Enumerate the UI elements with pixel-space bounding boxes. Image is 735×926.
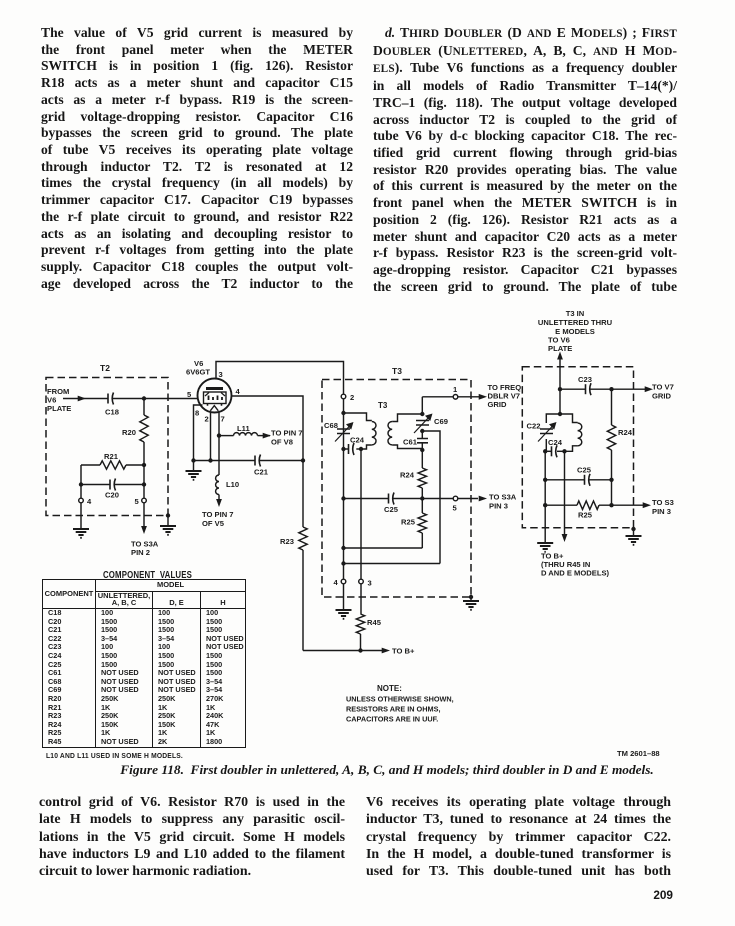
svg-text:C69: C69: [434, 417, 448, 426]
capacitor C25 (early models): [577, 466, 592, 486]
node: junction C24/coil bottom: [359, 447, 363, 451]
node: junction coil bottom / B+ line: [562, 449, 566, 453]
node: junction bus/pin2: [208, 458, 212, 462]
bottom right column: [366, 794, 671, 881]
resistor R24 (H model): [400, 450, 427, 499]
T3 shield label: [392, 366, 402, 376]
node: FROM V5 PLATE input label: [47, 387, 71, 413]
wire: B+ feed line: [303, 650, 382, 652]
svg-text:T3: T3: [378, 401, 388, 410]
resistor R45: [356, 584, 381, 651]
top right column: [373, 25, 677, 296]
svg-text:R20: R20: [122, 428, 136, 437]
transformer T3 (H model) shield box: [322, 380, 471, 598]
node: TO B+ label: [392, 647, 415, 656]
wire: left line down to ground: [544, 451, 546, 543]
wire: pin 7 down to L10: [218, 413, 220, 476]
node: junction C25/R24/R25: [420, 496, 424, 500]
wire: bus stub to ground: [193, 461, 195, 472]
pin 4 label: [236, 387, 241, 396]
svg-text:L10: L10: [226, 480, 239, 489]
capacitor C24 (early models): [545, 438, 564, 457]
ground on T2 shield: [160, 526, 176, 535]
resistor R24 (early models): [607, 389, 632, 505]
node: terminal 2 of T3: [341, 393, 354, 402]
caption: [14, 763, 735, 778]
node: TO PIN 7 OF V5 label: [202, 510, 234, 528]
note body: [346, 695, 454, 724]
node: junction R20/R21: [142, 463, 146, 467]
capacitor C21: [254, 455, 303, 477]
node: TO S3A PIN 3 label: [489, 493, 517, 511]
op-amp? no: electron tube V6 6V6GT envelope: [198, 379, 232, 413]
node: shield ground junction (early): [631, 527, 635, 536]
node: junction R45/B+: [358, 648, 362, 652]
tube V6 grid/cathode structure: [204, 392, 227, 406]
svg-text:OF V8: OF V8: [271, 438, 293, 447]
svg-text:UNLESS OTHERWISE SHOWN,: UNLESS OTHERWISE SHOWN,: [346, 695, 454, 704]
pin 5 label: [187, 390, 192, 399]
page number: [634, 888, 673, 902]
pin 8 label: [195, 409, 199, 418]
svg-text:C24: C24: [350, 436, 365, 445]
svg-text:CAPACITORS ARE IN UUF.: CAPACITORS ARE IN UUF.: [346, 715, 438, 724]
wire: C25 row (early models): [545, 479, 611, 481]
node: TO B+ (THRU R45) label: [541, 552, 610, 578]
svg-text:PIN 3: PIN 3: [652, 507, 671, 516]
svg-text:5: 5: [453, 504, 458, 513]
tube V6 base key: [210, 406, 218, 411]
capacitor C25 (H model): [384, 493, 399, 515]
svg-text:R45: R45: [367, 618, 382, 627]
node: junction R25 left (early): [543, 503, 547, 507]
node: terminal 5 of T3: [453, 496, 458, 512]
wire: C18 to tube pin 5: [113, 398, 198, 400]
wire: arrow to B+: [382, 648, 390, 654]
transformer T3 secondary winding: [388, 414, 422, 449]
node: junction R24/R25 (early): [609, 503, 613, 507]
svg-text:UNLETTERED THRU: UNLETTERED THRU: [538, 318, 613, 327]
ground under terminal 4: [73, 529, 89, 538]
node: junction plate/C23: [558, 387, 562, 391]
svg-text:8: 8: [195, 409, 199, 418]
transformer T2 shield box: [46, 378, 168, 516]
wire: pin 3 riser and top run to T3: [216, 362, 344, 395]
svg-text:4: 4: [236, 387, 241, 396]
wire: plate feed with up arrow: [557, 352, 563, 390]
TM number: [617, 749, 660, 758]
wire: secondary top to output corner: [422, 397, 479, 414]
svg-text:TO S3: TO S3: [652, 498, 674, 507]
svg-text:C25: C25: [577, 466, 592, 475]
component values table: [42, 579, 246, 760]
inductor L10: [216, 475, 240, 495]
node: T2 shield ground junction: [166, 513, 170, 526]
wire: C23 row: [560, 388, 645, 390]
node: terminal 1 of T3: [453, 385, 458, 399]
svg-text:L11: L11: [237, 424, 250, 433]
svg-text:TO PIN 7: TO PIN 7: [202, 510, 234, 519]
wire: L11 to V8 arrow: [258, 433, 272, 439]
node: junction C69/bypass branch: [420, 429, 424, 433]
wire: pin 8 down to ground bus: [194, 405, 203, 461]
resistor R20: [122, 399, 148, 466]
node: junction C61 bottom / R24 top: [420, 448, 424, 452]
resistor R23: [280, 461, 307, 651]
wire: bypass bottom row: [344, 563, 441, 565]
inductor T3 winding (early models): [560, 414, 582, 451]
svg-text:TO S3A: TO S3A: [489, 493, 517, 502]
node: junction tank top: [558, 412, 562, 416]
svg-text:PLATE: PLATE: [47, 404, 71, 413]
ground on cathode bus: [186, 471, 202, 480]
T2 label: [100, 363, 110, 373]
svg-text:6V6GT: 6V6GT: [186, 368, 210, 377]
node: junction C18/R20: [142, 396, 146, 400]
svg-text:PIN 2: PIN 2: [131, 548, 150, 557]
svg-text:C22: C22: [527, 422, 541, 431]
svg-text:R25: R25: [578, 511, 593, 520]
resistor R25 (H model): [401, 499, 427, 549]
node: junction C25 right (early): [609, 478, 613, 482]
node: TO S3 PIN 3 label: [652, 498, 674, 516]
transformer T3 (early models) shield box: [522, 367, 633, 528]
svg-text:C21: C21: [254, 468, 269, 477]
pin 2 label: [205, 415, 209, 424]
svg-text:R24: R24: [400, 471, 415, 480]
trimmer capacitor C22: [527, 414, 561, 451]
node: junction C25 left: [341, 496, 345, 500]
svg-text:4: 4: [87, 497, 92, 506]
wire: left tank line down to terminal 4: [343, 449, 345, 579]
wire: C25 row: [344, 498, 453, 500]
ground at left line (early models): [537, 543, 553, 552]
svg-text:5: 5: [135, 497, 140, 506]
svg-text:T3: T3: [392, 366, 402, 376]
wire: terminal 4 to ground: [343, 584, 345, 610]
svg-text:C61: C61: [403, 438, 418, 447]
svg-text:R24: R24: [618, 428, 633, 437]
wire: pin 2 down to ground bus: [210, 413, 212, 461]
node: terminal 4 of T3: [334, 578, 346, 587]
svg-text:5: 5: [187, 390, 192, 399]
node: terminal 4 of T2: [79, 497, 92, 506]
node: junction bypass row left: [341, 561, 345, 565]
ground on T3 shield: [463, 601, 479, 610]
svg-text:C20: C20: [105, 491, 119, 500]
svg-text:7: 7: [221, 415, 225, 424]
node: junction bus/pin8: [191, 458, 195, 462]
wire: arrow to freq doubler: [479, 394, 487, 400]
svg-text:3: 3: [368, 579, 372, 588]
node: terminal 3 of T3: [359, 579, 372, 588]
node: TO S3A PIN 2 label: [131, 540, 159, 558]
node: junction secondary top: [420, 412, 424, 416]
node: junction C22 bottom: [543, 449, 547, 453]
svg-text:3: 3: [219, 370, 223, 379]
svg-text:C23: C23: [578, 375, 592, 384]
tube V6 plate electrode: [206, 387, 223, 390]
svg-text:T3 IN: T3 IN: [566, 309, 585, 318]
pin 7 label: [221, 415, 225, 424]
component values table title: [103, 570, 194, 581]
svg-text:2: 2: [205, 415, 209, 424]
resistor R25 (early models): [545, 501, 643, 520]
svg-text:GRID: GRID: [652, 392, 672, 401]
svg-text:1: 1: [453, 385, 458, 394]
svg-text:D AND E MODELS): D AND E MODELS): [541, 569, 610, 578]
wire: C24 line down to terminal 3: [360, 449, 362, 579]
wire: input lead with arrow: [63, 396, 108, 402]
note heading: [377, 684, 402, 693]
svg-text:TM 2601–88: TM 2601–88: [617, 749, 660, 758]
pin 3 label: [219, 370, 223, 379]
wire: terminal 5 arrow to S3A: [458, 496, 487, 502]
node: junction C68/C24: [341, 447, 345, 451]
V6 tube designation label: [186, 359, 210, 377]
svg-text:T2: T2: [100, 363, 110, 373]
wire: left branch down to terminal 4: [80, 465, 82, 498]
node: junction C25 left (early): [543, 478, 547, 482]
capacitor C20: [81, 479, 144, 500]
wire: pin 4 run right and down: [232, 396, 304, 461]
bottom left column: [39, 794, 345, 881]
node: T3 IN UNLETTERED THRU E MODELS heading: [538, 309, 613, 336]
capacitor C18: [105, 393, 119, 417]
trimmer capacitor C68: [324, 421, 354, 442]
node: TO V6 PLATE label: [548, 336, 572, 354]
capacitor C23: [578, 375, 592, 395]
capacitor C24 (H model): [344, 436, 365, 456]
wire: ground bus under tube: [194, 460, 256, 462]
svg-text:R23: R23: [280, 537, 294, 546]
node: T3 shield ground junction: [469, 595, 473, 601]
node: TO FREQ DBLR V7 GRID label: [488, 383, 522, 409]
trimmer capacitor C69: [414, 414, 448, 434]
capacitor C61: [403, 431, 428, 450]
wire: arrow to S3 pin 3: [643, 502, 651, 508]
wire: R20 junction down to terminal 5: [143, 465, 145, 498]
wire: down to tank top junction: [559, 389, 561, 414]
node: junction C20 right: [142, 482, 146, 486]
svg-text:GRID: GRID: [488, 400, 508, 409]
svg-text:C68: C68: [324, 421, 338, 430]
top left column: [41, 25, 353, 293]
ground on shield (early): [626, 536, 642, 545]
svg-text:PIN 3: PIN 3: [489, 502, 508, 511]
svg-text:OF V5: OF V5: [202, 519, 225, 528]
svg-text:2: 2: [350, 393, 354, 402]
node: junction tank top left: [341, 411, 345, 415]
svg-text:R21: R21: [104, 452, 119, 461]
svg-text:TO PIN 7: TO PIN 7: [271, 429, 303, 438]
svg-text:TO B+: TO B+: [392, 647, 415, 656]
wire: B+ line down with arrow: [562, 451, 568, 542]
resistor R21: [81, 452, 144, 469]
node: junction R25 row left: [341, 546, 345, 550]
wire: L10 to V5 arrow: [216, 495, 222, 508]
node: TO PIN 7 OF V8 label: [271, 429, 303, 447]
node: junction pin7/L11: [217, 433, 221, 437]
wire: terminal 2 down to tank: [343, 399, 345, 449]
node: TO V7 GRID label: [652, 383, 674, 401]
svg-text:C24: C24: [548, 438, 563, 447]
node: junction C23/R24: [609, 387, 613, 391]
wire: R25 bottom row: [344, 547, 423, 549]
node: junction C21/R23: [301, 458, 305, 462]
svg-text:RESISTORS ARE IN OHMS,: RESISTORS ARE IN OHMS,: [346, 705, 440, 714]
svg-text:NOTE:: NOTE:: [377, 684, 402, 693]
svg-text:PLATE: PLATE: [548, 344, 572, 353]
wire: bypass branch right and down: [422, 431, 440, 564]
wire: terminal 5 to S3A arrow: [141, 503, 147, 534]
wire: arrow to V7 grid: [645, 386, 653, 392]
wire: terminal 4 to ground: [80, 503, 82, 529]
node: junction C20 left: [79, 482, 83, 486]
transformer T3 primary winding: [344, 401, 388, 449]
node: terminal 5 of T2: [135, 497, 147, 506]
svg-text:R25: R25: [401, 518, 416, 527]
svg-text:C25: C25: [384, 505, 399, 514]
inductor L11: [219, 424, 258, 436]
svg-text:TO V7: TO V7: [652, 383, 674, 392]
ground under terminal 4 of T3: [336, 610, 352, 619]
svg-text:4: 4: [334, 578, 339, 587]
svg-text:C18: C18: [105, 408, 119, 417]
